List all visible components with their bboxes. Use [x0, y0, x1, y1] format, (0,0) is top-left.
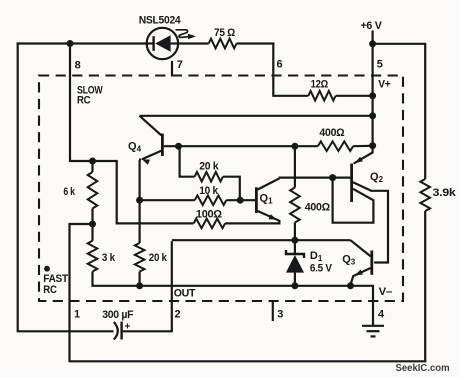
- wire capacitor left: [18, 330, 114, 332]
- svg-text:3.9k: 3.9k: [433, 187, 457, 199]
- transistor Q4: [140, 116, 163, 165]
- svg-text:NSL5024: NSL5024: [139, 15, 182, 27]
- svg-text:400Ω: 400Ω: [305, 201, 330, 213]
- wire Q4 emitter below 10k: [139, 200, 141, 243]
- svg-text:Q1: Q1: [260, 193, 274, 206]
- svg-text:75 Ω: 75 Ω: [214, 27, 235, 39]
- wire internal bottom rail: [93, 285, 375, 287]
- pin 7 label: [177, 59, 183, 71]
- svg-text:20 k: 20 k: [199, 161, 219, 173]
- wire 400 ohm top to V+ vertical: [353, 145, 373, 148]
- svg-text:2: 2: [175, 309, 181, 321]
- IC package dashed outline: [39, 76, 403, 302]
- capacitor 300 uF: [114, 322, 131, 340]
- svg-text:3 k: 3 k: [102, 252, 116, 264]
- node junction Q4 emitter / 10k: [136, 197, 143, 204]
- wire top rail left (V+ top to LED anode): [17, 42, 147, 44]
- svg-text:V+: V+: [378, 79, 390, 91]
- wire V- drop: [372, 286, 374, 326]
- svg-text:12Ω: 12Ω: [311, 79, 329, 91]
- resistor 400 ohm top: [318, 141, 353, 151]
- wire 10k left segment: [140, 199, 195, 201]
- resistor 100 ohm label: [196, 208, 222, 220]
- svg-text:5: 5: [377, 59, 383, 71]
- resistor 20k vertical: [135, 243, 145, 272]
- node junction Q1 base: [237, 197, 244, 204]
- transistor Q3 label: [342, 254, 356, 267]
- wire Q4 emitter drop: [140, 159, 141, 201]
- resistor 75 ohm label: [214, 27, 235, 39]
- resistor 10k: [195, 195, 227, 205]
- wire 20k branch drop: [180, 145, 195, 177]
- node junction 12 ohm / V+ vertical: [369, 92, 376, 99]
- pin 2 label: [175, 309, 181, 321]
- wire Q4 base line: [164, 145, 318, 147]
- wire 3.9k bottom segment: [424, 211, 426, 362]
- LED NSL5024 label: [139, 15, 182, 27]
- svg-text:SeekIC.com: SeekIC.com: [396, 362, 450, 374]
- pin 6 label: [277, 59, 283, 71]
- wire +6V stub: [372, 31, 374, 45]
- wire 400 ohm vertical bottom segment: [294, 223, 296, 241]
- resistor 6k: [88, 172, 98, 209]
- transistor Q3: [350, 240, 371, 284]
- svg-text:6.5 V: 6.5 V: [310, 262, 333, 274]
- SLOW RC label: [77, 84, 103, 106]
- wire 3.9k top segment: [424, 44, 426, 179]
- pin V+ label: [378, 79, 390, 91]
- svg-text:+6 V: +6 V: [361, 20, 383, 32]
- svg-text:Q2: Q2: [370, 171, 384, 184]
- resistor 100 ohm: [194, 219, 226, 229]
- LED NSL5024: [147, 28, 178, 59]
- resistor 20k label: [199, 161, 219, 173]
- wire 10k to Q1 base: [226, 199, 255, 201]
- wire node B to pin 1 drop: [70, 224, 94, 362]
- svg-text:V–: V–: [379, 286, 392, 298]
- diode D1 label: [310, 250, 323, 263]
- svg-text:FAST: FAST: [43, 273, 68, 285]
- node junction Q2 base node: [329, 174, 336, 181]
- wire left outer vertical (top rail down to capacitor): [17, 43, 19, 333]
- transistor Q4 label: [128, 141, 142, 154]
- resistor 10k label: [199, 185, 219, 197]
- node junction inner top rail / V+ vertical: [369, 112, 376, 119]
- svg-text:OUT: OUT: [174, 287, 196, 299]
- wire inner top rail: [140, 115, 373, 117]
- resistor 6k label: [63, 186, 75, 198]
- svg-text:4: 4: [378, 309, 385, 321]
- wire 100 ohm right segment: [225, 222, 280, 224]
- node junction D1 bottom rail: [291, 282, 298, 289]
- wire capacitor right: [122, 330, 172, 332]
- node junction Q4 base / 20k branch: [175, 143, 182, 150]
- svg-text:Q3: Q3: [342, 254, 356, 267]
- wire pin 2 vertical: [171, 241, 173, 332]
- pin 3 stub: [272, 300, 274, 321]
- OUT label: [174, 287, 196, 299]
- svg-text:8: 8: [75, 60, 81, 72]
- svg-text:Q4: Q4: [128, 141, 142, 154]
- LED light emission arrow: [176, 30, 197, 40]
- wire LED cathode to 75 ohm: [178, 42, 209, 44]
- pin 1 label: [74, 309, 80, 321]
- pin 5 label: [377, 59, 383, 71]
- resistor 400 ohm top label: [319, 127, 344, 139]
- wire 400 ohm vertical top segment: [294, 146, 296, 187]
- wire OUT line: [172, 239, 351, 241]
- svg-text:100Ω: 100Ω: [196, 208, 222, 220]
- node B junction: [89, 221, 96, 228]
- pin 3 label: [277, 309, 283, 321]
- wire 75 ohm to pin 6 corner: [237, 42, 275, 44]
- node A junction: [89, 158, 96, 165]
- wire 12 ohm right segment: [336, 95, 373, 97]
- resistor 12 ohm: [308, 91, 335, 101]
- resistor 20k vertical label: [149, 252, 168, 264]
- pin 7 stub: [171, 61, 173, 77]
- svg-text:400Ω: 400Ω: [319, 127, 344, 139]
- capacitor 300 uF label: [102, 309, 134, 321]
- resistor 75 ohm: [209, 39, 237, 49]
- node junction Q2 emitter node: [369, 142, 376, 149]
- wire +6V rail right: [373, 43, 427, 45]
- pin V- label: [379, 286, 392, 298]
- wire 20k to Q1 base node: [223, 177, 240, 202]
- wire bottom rail: [70, 360, 427, 362]
- wire node A jog: [93, 161, 141, 223]
- node junction +6V: [369, 40, 376, 47]
- svg-text:3: 3: [277, 309, 283, 321]
- node junction Q3 emitter rail: [347, 282, 354, 289]
- transistor Q2: [333, 146, 388, 263]
- resistor 3.9k: [420, 179, 430, 211]
- transistor Q1: [256, 178, 279, 224]
- svg-text:D1: D1: [310, 250, 323, 263]
- node junction 400 ohm vertical top: [291, 143, 298, 150]
- wire main V+ vertical: [372, 44, 374, 146]
- node junction 20k bottom rail: [136, 282, 143, 289]
- FAST RC label: [43, 273, 68, 296]
- diode D1 voltage label: [310, 262, 333, 274]
- resistor 400 ohm vertical: [290, 188, 300, 223]
- wire 100 ohm left segment: [140, 222, 194, 224]
- resistor 20k: [195, 172, 223, 182]
- wire 6k stubs: [91, 160, 93, 225]
- resistor 3k: [88, 241, 98, 272]
- svg-text:6 k: 6 k: [63, 186, 75, 198]
- resistor 12 ohm label: [311, 79, 329, 91]
- pin 8 label: [75, 60, 81, 72]
- ground symbol: [362, 326, 384, 337]
- svg-text:6: 6: [277, 59, 283, 71]
- resistor 3k label: [102, 252, 116, 264]
- wire pin 8 drop: [69, 44, 93, 163]
- wire 20k bottom segment: [139, 272, 141, 287]
- pin 4 label: [378, 309, 385, 321]
- power +6 V label: [361, 20, 383, 32]
- resistor 400 ohm vertical label: [305, 201, 330, 213]
- wire pin 6 vertical: [272, 43, 274, 97]
- wire 3k stubs: [91, 224, 93, 287]
- zener diode D1: [286, 240, 304, 287]
- svg-text:RC: RC: [43, 284, 57, 296]
- svg-text:20 k: 20 k: [149, 252, 168, 264]
- FAST RC marker dot: [44, 266, 50, 272]
- svg-text:300 µF: 300 µF: [102, 309, 134, 321]
- svg-text:7: 7: [177, 59, 183, 71]
- node junction D1 top: [291, 237, 298, 244]
- svg-text:10 k: 10 k: [199, 185, 219, 197]
- transistor Q1 label: [260, 193, 274, 206]
- svg-text:RC: RC: [77, 94, 91, 106]
- node junction top rail / pin 8: [67, 40, 74, 47]
- SeekIC.com watermark: [396, 362, 450, 374]
- transistor Q2 label: [370, 171, 384, 184]
- wire 12 ohm left segment: [273, 95, 308, 97]
- resistor 3.9k label: [433, 187, 457, 199]
- svg-text:1: 1: [74, 309, 80, 321]
- wire Q1 collector line: [279, 177, 351, 179]
